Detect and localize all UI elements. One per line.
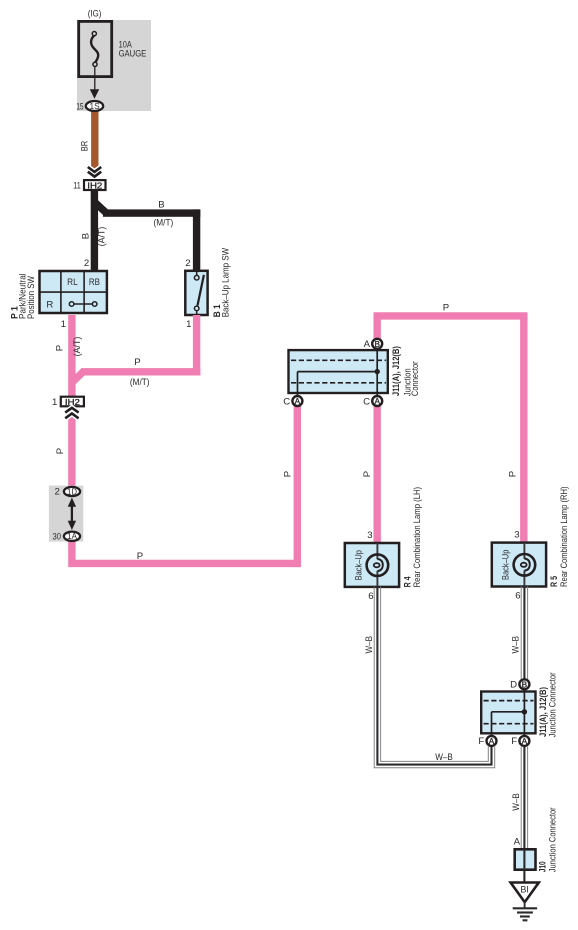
svg-text:1: 1 bbox=[186, 319, 191, 330]
svg-text:W–B: W–B bbox=[435, 752, 453, 763]
svg-text:C: C bbox=[283, 396, 290, 407]
in-harness arrows between 1D and 1A bbox=[68, 498, 76, 530]
label P on left vertical bbox=[55, 448, 66, 454]
wire W-B from R4 pin 6 to junction F pin bbox=[374, 587, 495, 768]
switch P1 Park/Neutral Position SW bbox=[40, 271, 108, 313]
connector chevron out of IH2 pin 1 bbox=[65, 408, 78, 419]
svg-text:B: B bbox=[81, 233, 92, 239]
label Junction Connector upper bbox=[403, 361, 421, 396]
svg-text:1D: 1D bbox=[67, 486, 77, 496]
lamp R5 Rear Combination Lamp RH back-up bulb bbox=[492, 543, 546, 587]
svg-text:P: P bbox=[362, 471, 373, 477]
wire P vertical (M/T) from B1 pin 1 bbox=[193, 315, 200, 376]
connector terminal 1A pin 30 bbox=[53, 531, 81, 542]
svg-text:P: P bbox=[134, 357, 140, 368]
svg-text:1S: 1S bbox=[90, 101, 101, 111]
wire P from junction A right pin down to R4 pin 3 bbox=[374, 404, 381, 543]
label J11(A), J12(B) lower bbox=[538, 687, 549, 737]
svg-text:Junction Connector: Junction Connector bbox=[548, 672, 558, 737]
label BR bbox=[80, 141, 91, 152]
junction connector J11(A) J12(B) upper bbox=[289, 349, 388, 397]
svg-text:W–B: W–B bbox=[511, 636, 522, 654]
svg-text:1: 1 bbox=[52, 397, 57, 408]
svg-text:(M/T): (M/T) bbox=[154, 217, 174, 228]
junction J11 pin A bottom left bbox=[283, 396, 302, 407]
svg-text:Rear Combination Lamp (LH): Rear Combination Lamp (LH) bbox=[412, 487, 422, 588]
svg-text:(A/T): (A/T) bbox=[96, 227, 107, 247]
label B1 designator bbox=[212, 304, 223, 317]
svg-text:Back–Up: Back–Up bbox=[354, 550, 364, 580]
svg-text:P: P bbox=[282, 471, 293, 477]
svg-text:RL: RL bbox=[67, 277, 78, 288]
label pin 3 of R4 bbox=[367, 530, 372, 541]
junction J11 pin A bottom right bbox=[363, 396, 382, 407]
label P on top horizontal bbox=[443, 302, 449, 313]
label W-B on bottom horizontal bbox=[435, 752, 453, 763]
label Rear Combination Lamp (LH) bbox=[412, 487, 422, 588]
label pin 3 of R5 bbox=[514, 530, 519, 541]
svg-text:2: 2 bbox=[185, 258, 190, 269]
fuse F 10A GAUGE bbox=[79, 21, 112, 76]
label W-B on R4 vertical bbox=[364, 636, 375, 654]
svg-text:Rear Combination Lamp (RH): Rear Combination Lamp (RH) bbox=[559, 487, 569, 588]
svg-text:W–B: W–B bbox=[511, 793, 522, 811]
svg-text:(M/T): (M/T) bbox=[130, 377, 150, 388]
svg-text:6: 6 bbox=[515, 591, 520, 602]
svg-text:11: 11 bbox=[73, 181, 81, 192]
wire BR from 1S to IH2 bbox=[91, 104, 98, 172]
label 10A GAUGE bbox=[119, 40, 147, 60]
label P on right vertical bbox=[507, 471, 518, 477]
label Rear Combination Lamp (RH) bbox=[559, 487, 569, 588]
junction J11 lower pin A bottom right bbox=[511, 736, 529, 747]
wire W-B from junction F pin to J10 pin A bbox=[521, 747, 527, 849]
label B (M/T) bbox=[154, 199, 174, 228]
svg-text:3: 3 bbox=[367, 530, 372, 541]
svg-text:P: P bbox=[55, 345, 66, 351]
svg-text:A: A bbox=[374, 397, 380, 406]
in-harness connector shading box 1D 1A bbox=[49, 486, 83, 542]
svg-text:W–B: W–B bbox=[364, 636, 375, 654]
connector chevron into IH2 pin 11 bbox=[88, 167, 101, 177]
label pin 2 of P1 bbox=[84, 258, 89, 269]
svg-text:Position SW: Position SW bbox=[26, 276, 36, 319]
svg-text:(IG): (IG) bbox=[88, 9, 102, 20]
connector IH2 pin 11 bbox=[73, 180, 105, 192]
wire P vertical (A/T) from P1 pin 1 to IH2 pin 1 bbox=[68, 315, 75, 397]
svg-text:D: D bbox=[510, 680, 517, 691]
wire P vertical below IH2 pin 1 bbox=[68, 414, 75, 495]
svg-text:P: P bbox=[55, 448, 66, 454]
svg-text:P: P bbox=[443, 302, 449, 313]
fuse block shading box bbox=[77, 20, 151, 111]
svg-text:RB: RB bbox=[89, 277, 100, 288]
svg-text:F: F bbox=[511, 736, 517, 747]
label pin 6 of R4 bbox=[368, 591, 373, 602]
label P left junction vertical bbox=[282, 471, 293, 477]
switch B1 Back-Up Lamp SW bbox=[185, 271, 207, 315]
junction connector J10 bbox=[515, 849, 536, 882]
lamp R4 Rear Combination Lamp LH back-up bulb bbox=[345, 543, 399, 587]
label pin 6 of R5 bbox=[515, 591, 520, 602]
label Junction Connector lower bbox=[548, 672, 558, 737]
svg-text:6: 6 bbox=[368, 591, 373, 602]
wire B vertical (A/T) from IH2 to P1 pin 2 bbox=[91, 191, 98, 270]
connector terminal 1S pin 15 bbox=[76, 101, 103, 113]
svg-text:IH2: IH2 bbox=[87, 181, 103, 190]
svg-text:1A: 1A bbox=[67, 531, 77, 541]
wire P top horizontal run to R5 bbox=[377, 316, 524, 542]
svg-text:BI: BI bbox=[520, 885, 529, 896]
svg-text:Back–Up Lamp SW: Back–Up Lamp SW bbox=[220, 248, 230, 318]
label P middle junction vertical bbox=[362, 471, 373, 477]
svg-text:2: 2 bbox=[84, 258, 89, 269]
wire W-B from R5 pin 6 to junction D pin bbox=[521, 586, 527, 679]
label Back-Up Lamp SW bbox=[220, 248, 230, 318]
svg-text:1: 1 bbox=[61, 319, 66, 330]
wire B horizontal (M/T) to B1 bbox=[103, 209, 200, 216]
svg-text:F: F bbox=[478, 736, 484, 747]
svg-text:J11(A), J12(B): J11(A), J12(B) bbox=[391, 346, 402, 396]
connector terminal 1D pin 2 bbox=[54, 486, 80, 497]
svg-text:A: A bbox=[295, 397, 301, 406]
svg-text:R: R bbox=[46, 299, 53, 310]
connector IH2 pin 1 bbox=[52, 397, 84, 408]
wire P from 1A down and right to junction connector column bbox=[72, 530, 301, 563]
svg-text:A: A bbox=[514, 836, 521, 847]
label Junction Connector J10 bbox=[547, 807, 557, 872]
label pin 1 of P1 bbox=[61, 319, 66, 330]
label P (A/T) rotated bbox=[55, 337, 83, 357]
svg-text:15: 15 bbox=[76, 101, 83, 112]
svg-text:2: 2 bbox=[54, 487, 59, 498]
label B (A/T) rotated bbox=[81, 227, 108, 247]
wire P from junction A left pin down bbox=[294, 404, 301, 567]
label J11(A), J12(B) upper bbox=[391, 346, 402, 396]
label W-B on R5 vertical bbox=[511, 636, 522, 654]
junction J11 pin B top bbox=[364, 339, 383, 350]
wire P horizontal (M/T) bbox=[73, 368, 200, 382]
svg-text:Back–Up: Back–Up bbox=[501, 550, 511, 580]
wire B branch bevel bbox=[95, 203, 105, 213]
svg-text:3: 3 bbox=[514, 530, 519, 541]
svg-text:(A/T): (A/T) bbox=[72, 337, 83, 357]
label P on bottom horizontal bbox=[137, 551, 143, 562]
svg-text:30: 30 bbox=[53, 532, 62, 543]
svg-text:P: P bbox=[137, 551, 143, 562]
svg-text:A: A bbox=[522, 737, 528, 746]
svg-text:B: B bbox=[158, 199, 164, 210]
label R5 designator bbox=[549, 576, 560, 587]
label W-B above J10 bbox=[511, 793, 522, 811]
svg-text:P: P bbox=[507, 471, 518, 477]
label pin A of J10 bbox=[514, 836, 521, 847]
label P (M/T) bbox=[130, 357, 150, 388]
svg-text:B: B bbox=[522, 681, 528, 690]
ground point BI triangle bbox=[511, 883, 539, 903]
junction J11 lower pin A bottom left bbox=[478, 736, 496, 747]
label P1 designator bbox=[10, 306, 21, 319]
label pin 1 of B1 bbox=[186, 319, 191, 330]
svg-text:B: B bbox=[374, 340, 380, 349]
label (IG) bbox=[88, 9, 102, 20]
ground symbol bbox=[513, 902, 537, 921]
svg-text:A: A bbox=[489, 737, 495, 746]
wire fuse output with arrow into 1S bbox=[90, 67, 99, 99]
svg-text:C: C bbox=[363, 396, 370, 407]
label Park/Neutral Position SW bbox=[17, 273, 36, 319]
wire B vertical (M/T) to B1 pin 2 bbox=[193, 209, 200, 270]
svg-text:Junction Connector: Junction Connector bbox=[547, 807, 557, 872]
svg-text:A: A bbox=[364, 339, 371, 350]
junction J11 lower pin B top bbox=[510, 679, 529, 690]
label R4 designator bbox=[403, 576, 414, 587]
svg-text:BR: BR bbox=[80, 141, 91, 152]
label pin 2 of B1 bbox=[185, 258, 190, 269]
junction connector J11(A) J12(B) lower bbox=[481, 690, 535, 737]
svg-text:Connector: Connector bbox=[410, 361, 420, 396]
label J10 designator bbox=[538, 861, 549, 872]
svg-text:GAUGE: GAUGE bbox=[119, 49, 147, 60]
